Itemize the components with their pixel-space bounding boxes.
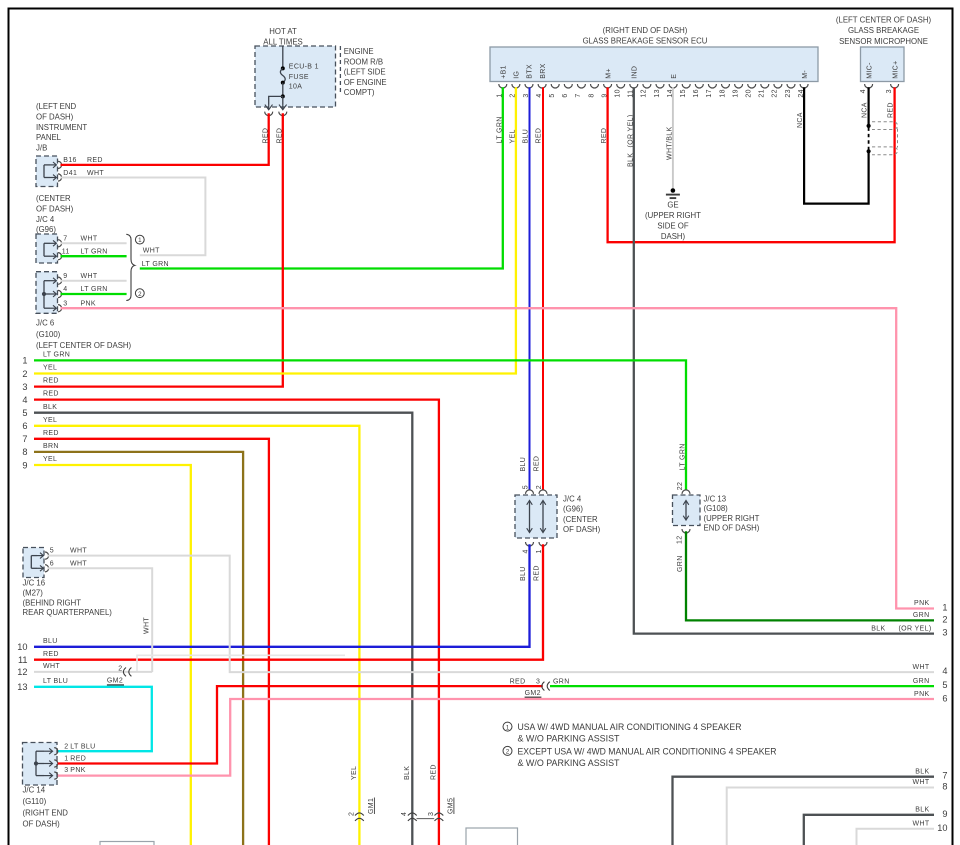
svg-text:+B1: +B1	[501, 65, 508, 79]
svg-text:BTX: BTX	[527, 64, 534, 79]
svg-text:ALL TIMES: ALL TIMES	[263, 37, 302, 46]
wire WHT right row 10	[857, 829, 935, 845]
svg-text:15: 15	[680, 89, 687, 98]
fuse ECU-B 1 10A	[282, 46, 284, 67]
svg-text:3: 3	[64, 767, 68, 774]
wire LT BLU row 13 to J/C14 pin 2	[34, 687, 152, 751]
svg-text:22: 22	[677, 482, 684, 491]
shield dashed segment on drain wire	[868, 128, 870, 150]
wire WHT J/C6 pin9 to brace	[61, 280, 127, 282]
svg-text:WHT: WHT	[81, 273, 98, 280]
svg-text:22: 22	[772, 89, 779, 98]
connector J/C 16 (M27)	[23, 548, 44, 578]
svg-text:OF DASH): OF DASH)	[36, 204, 74, 213]
svg-text:J/C 14: J/C 14	[23, 786, 46, 795]
svg-text:(LEFT CENTER OF DASH): (LEFT CENTER OF DASH)	[36, 341, 132, 350]
svg-text:J/C 13: J/C 13	[704, 495, 727, 504]
wire LT GRN J/C6 pin4 to brace	[61, 293, 127, 295]
wire BLK microphone MIC- drain upper	[867, 87, 869, 124]
svg-text:J/C 4: J/C 4	[563, 495, 582, 504]
wire BLK ECU pin24 M- to microphone MIC-	[804, 87, 869, 203]
svg-text:RED: RED	[43, 378, 59, 385]
svg-text:3: 3	[886, 89, 893, 93]
svg-text:J/B: J/B	[36, 144, 47, 153]
svg-text:PNK: PNK	[81, 300, 96, 307]
svg-text:17: 17	[706, 89, 713, 98]
svg-text:9: 9	[22, 460, 27, 470]
wire YEL row 9 to bottom	[34, 465, 191, 845]
svg-text:BLK: BLK	[871, 625, 885, 632]
svg-text:3: 3	[63, 300, 67, 307]
svg-text:EXCEPT USA W/ 4WD MANUAL AIR C: EXCEPT USA W/ 4WD MANUAL AIR CONDITIONIN…	[518, 747, 777, 757]
svg-text:(M27): (M27)	[23, 588, 44, 597]
svg-text:HOT AT: HOT AT	[269, 27, 297, 36]
svg-text:13: 13	[17, 682, 27, 692]
svg-text:WHT: WHT	[43, 663, 60, 670]
svg-text:COMPT): COMPT)	[344, 88, 375, 97]
svg-text:11: 11	[62, 248, 70, 255]
svg-text:4: 4	[63, 286, 67, 293]
svg-text:WHT: WHT	[913, 779, 930, 786]
svg-text:ENGINE: ENGINE	[344, 47, 374, 56]
partial connector box bottom left	[100, 842, 154, 845]
svg-text:GLASS BREAKAGE SENSOR ECU: GLASS BREAKAGE SENSOR ECU	[583, 37, 708, 46]
wire RED ECU pin9 M+ to microphone MIC+	[608, 87, 895, 242]
svg-text:5: 5	[549, 93, 556, 97]
svg-text:RED: RED	[43, 391, 59, 398]
svg-text:OF DASH): OF DASH)	[563, 525, 601, 534]
svg-text:(LEFT CENTER OF DASH): (LEFT CENTER OF DASH)	[836, 16, 932, 25]
svg-text:RED: RED	[70, 755, 86, 762]
svg-text:WHT: WHT	[87, 170, 104, 177]
svg-text:(OR YEL): (OR YEL)	[898, 625, 931, 632]
legend option 2	[503, 746, 512, 755]
svg-text:(CENTER: (CENTER	[563, 515, 598, 524]
fuse box ENGINE ROOM R/B	[255, 46, 336, 107]
svg-text:WHT: WHT	[70, 560, 87, 567]
ECU pin cups and numbers 1-24	[499, 84, 507, 88]
svg-text:3: 3	[428, 812, 435, 816]
svg-text:WHT: WHT	[913, 664, 930, 671]
svg-text:OF ENGINE: OF ENGINE	[344, 78, 387, 87]
svg-text:GE: GE	[667, 200, 678, 209]
svg-text:9: 9	[63, 273, 67, 280]
svg-text:GLASS BREAKAGE: GLASS BREAKAGE	[848, 26, 919, 35]
svg-text:PNK: PNK	[914, 691, 929, 698]
svg-text:E: E	[671, 74, 678, 79]
ground GE	[671, 188, 676, 193]
svg-text:(RIGHT END OF DASH): (RIGHT END OF DASH)	[603, 26, 688, 35]
link between splice 4 and splice GM5	[417, 818, 435, 820]
svg-text:7: 7	[575, 93, 582, 97]
J/C4 center cups	[526, 490, 534, 494]
wire LT GRN brace to ECU pin 1	[140, 87, 503, 268]
svg-text:13: 13	[654, 89, 661, 98]
wire PNK J/C14 pin3 to right row 6	[58, 699, 934, 776]
svg-text:10: 10	[615, 89, 622, 98]
svg-text:5: 5	[942, 680, 947, 690]
svg-text:RED: RED	[431, 764, 438, 780]
svg-text:12: 12	[17, 667, 27, 677]
svg-text:BRX: BRX	[540, 63, 547, 78]
svg-text:& W/O PARKING ASSIST: & W/O PARKING ASSIST	[518, 758, 620, 768]
wire RED row 7 to bottom	[34, 439, 269, 845]
svg-text:9: 9	[942, 809, 947, 819]
svg-text:2: 2	[118, 665, 122, 672]
svg-text:ROOM R/B: ROOM R/B	[344, 57, 383, 66]
junction dot J/C 14 bracket	[34, 761, 38, 765]
svg-text:2: 2	[22, 369, 27, 379]
svg-text:BLU: BLU	[520, 566, 527, 581]
wire BLU J/C4 center to row 10	[34, 544, 530, 647]
brace selector	[126, 234, 134, 300]
svg-text:6: 6	[942, 694, 947, 704]
svg-text:7: 7	[942, 771, 947, 781]
svg-text:LT GRN: LT GRN	[81, 248, 108, 255]
wire BLK (OR YEL) ECU pin11 to right row 3	[634, 87, 934, 633]
svg-text:1: 1	[138, 237, 142, 244]
svg-text:12: 12	[641, 89, 648, 98]
svg-text:WHT: WHT	[70, 548, 87, 555]
option marker 2	[135, 289, 144, 298]
svg-text:& W/O PARKING ASSIST: & W/O PARKING ASSIST	[518, 734, 620, 744]
svg-text:MIC+: MIC+	[892, 60, 899, 78]
svg-text:1: 1	[506, 724, 510, 731]
svg-text:J/C 16: J/C 16	[23, 579, 46, 588]
svg-text:GM2: GM2	[525, 690, 541, 697]
svg-text:LT GRN: LT GRN	[81, 286, 108, 293]
svg-text:FUSE: FUSE	[289, 74, 309, 81]
svg-text:BLU: BLU	[43, 638, 58, 645]
wire WHT row12 branch upper	[137, 655, 345, 672]
svg-text:(G108): (G108)	[704, 504, 729, 513]
svg-text:BLK: BLK	[43, 404, 57, 411]
wire GRN J/C13 pin12 to right row 2	[686, 531, 934, 620]
svg-text:(G110): (G110)	[23, 797, 47, 806]
svg-text:8: 8	[22, 447, 27, 457]
svg-text:6: 6	[22, 421, 27, 431]
svg-text:(G96): (G96)	[36, 225, 56, 234]
svg-text:2: 2	[942, 615, 947, 625]
svg-text:2: 2	[536, 485, 543, 489]
arrow terminal right fuse output	[282, 105, 284, 110]
wire RED row 4 to bottom	[34, 400, 439, 845]
svg-text:12: 12	[677, 536, 684, 545]
wire RED ECU pin4 to J/C4 center	[542, 87, 544, 490]
svg-text:USA W/ 4WD MANUAL AIR CONDITIO: USA W/ 4WD MANUAL AIR CONDITIONING 4 SPE…	[518, 722, 742, 732]
svg-text:REAR QUARTERPANEL): REAR QUARTERPANEL)	[23, 608, 113, 617]
junction dot J/C 6 bracket	[42, 292, 46, 296]
wire RED fuse to row 3	[34, 113, 283, 386]
svg-text:GRN: GRN	[913, 678, 930, 685]
svg-text:2: 2	[138, 291, 142, 298]
wire BLU ECU pin3 to J/C4 center	[529, 87, 531, 490]
svg-text:5: 5	[50, 548, 54, 555]
wire LT GRN row 1 to J/C 13 pin 22	[34, 360, 686, 489]
partial connector box bottom center	[466, 828, 518, 845]
svg-text:MIC-: MIC-	[866, 62, 873, 79]
shield junction dots	[867, 124, 871, 128]
wire RED J/C14 pin1 to GM2	[58, 686, 543, 763]
svg-text:4: 4	[22, 395, 27, 405]
svg-text:M-: M-	[802, 70, 809, 79]
svg-text:11: 11	[18, 655, 28, 665]
svg-text:INSTRUMENT: INSTRUMENT	[36, 123, 87, 132]
fuse output branch wires	[269, 96, 283, 104]
svg-text:23: 23	[785, 89, 792, 98]
svg-text:WHT: WHT	[81, 235, 98, 242]
svg-text:6: 6	[562, 93, 569, 97]
wire BLK right row 9	[804, 815, 934, 845]
svg-text:3: 3	[22, 382, 27, 392]
svg-text:IG: IG	[514, 71, 521, 79]
connector J/C 4 (G96) center of dash	[515, 495, 557, 538]
svg-text:RED: RED	[510, 678, 526, 685]
wire WHT/BLK ECU pin14 to ground GE	[672, 87, 674, 188]
microphone box GLASS BREAKAGE SENSOR MICROPHONE	[861, 47, 905, 82]
wire BLK right row 7	[673, 777, 935, 845]
svg-text:2: 2	[64, 744, 68, 751]
svg-text:YEL: YEL	[43, 456, 57, 463]
connector J/B instrument panel	[36, 156, 58, 187]
svg-text:(UPPER RIGHT: (UPPER RIGHT	[704, 514, 760, 523]
svg-text:2: 2	[348, 812, 355, 816]
svg-text:(G100): (G100)	[36, 330, 61, 339]
svg-text:GRN: GRN	[677, 555, 684, 572]
wire RED J/C4 center to row 11	[34, 544, 543, 660]
svg-text:3: 3	[536, 678, 540, 685]
svg-text:BLU: BLU	[520, 457, 527, 472]
svg-text:4: 4	[522, 549, 529, 553]
svg-text:WHT: WHT	[913, 821, 930, 828]
svg-text:M+: M+	[605, 68, 612, 79]
svg-text:B16: B16	[63, 157, 77, 164]
svg-text:10: 10	[17, 642, 27, 652]
svg-text:PNK: PNK	[70, 767, 85, 774]
svg-text:1: 1	[22, 356, 27, 366]
svg-text:5: 5	[522, 485, 529, 489]
svg-text:YEL: YEL	[43, 417, 57, 424]
svg-text:LT GRN: LT GRN	[142, 261, 169, 268]
svg-text:END OF DASH): END OF DASH)	[704, 524, 760, 533]
legend option 1	[503, 722, 512, 731]
svg-text:10: 10	[937, 823, 947, 833]
svg-text:LT BLU: LT BLU	[70, 744, 95, 751]
svg-text:(BEHIND RIGHT: (BEHIND RIGHT	[23, 598, 82, 607]
svg-text:RED: RED	[534, 565, 541, 581]
wire YEL ECU pin2 to row 2	[34, 87, 516, 373]
arrow terminal left fuse output	[268, 105, 270, 110]
svg-text:ECU-B 1: ECU-B 1	[289, 64, 319, 71]
wire PNK J/C6 pin3 to right row 1	[61, 308, 935, 608]
svg-text:10A: 10A	[289, 84, 303, 91]
svg-text:1: 1	[64, 755, 68, 762]
svg-text:WHT: WHT	[144, 617, 151, 634]
wire LT GRN J/C4 pin11 to brace	[61, 255, 127, 257]
wire WHT brace to J/B D41	[61, 178, 206, 256]
shield symbol dashed staples	[872, 122, 898, 130]
svg-text:21: 21	[759, 89, 766, 98]
svg-text:8: 8	[942, 782, 947, 792]
dashed continuation line of engine room R/B	[339, 46, 341, 94]
svg-text:1: 1	[536, 549, 543, 553]
connector J/C 14 (G110)	[23, 743, 58, 786]
svg-text:YEL: YEL	[43, 365, 57, 372]
wire BLK row 5 to bottom	[34, 413, 412, 845]
svg-text:RED: RED	[43, 430, 59, 437]
svg-text:2: 2	[506, 749, 510, 756]
wire WHT row 12	[34, 671, 152, 673]
wire WHT J/C16 pin5 to right row 4	[48, 556, 934, 673]
svg-text:RED: RED	[43, 651, 59, 658]
svg-text:(CENTER: (CENTER	[36, 194, 71, 203]
svg-text:(LEFT SIDE: (LEFT SIDE	[344, 68, 386, 77]
connector J/C 13 (G108)	[673, 495, 701, 526]
svg-text:SENSOR MICROPHONE: SENSOR MICROPHONE	[839, 37, 928, 46]
svg-text:RED: RED	[87, 157, 103, 164]
svg-text:6: 6	[50, 560, 54, 567]
svg-text:GRN: GRN	[553, 678, 570, 685]
connector J/C 4 (G96) left	[36, 234, 58, 263]
svg-text:4: 4	[536, 93, 543, 97]
wire RED fuse to J/B B16	[61, 113, 269, 165]
svg-text:(RIGHT END: (RIGHT END	[23, 808, 69, 817]
svg-text:19: 19	[732, 89, 739, 98]
svg-text:GM1: GM1	[368, 798, 375, 814]
svg-text:(G96): (G96)	[563, 505, 583, 514]
svg-text:YEL: YEL	[351, 766, 358, 780]
svg-text:18: 18	[719, 89, 726, 98]
svg-text:4: 4	[942, 666, 947, 676]
svg-text:OF DASH): OF DASH)	[36, 112, 74, 121]
svg-text:8: 8	[588, 93, 595, 97]
svg-text:IND: IND	[632, 66, 639, 79]
svg-text:BLK: BLK	[915, 807, 929, 814]
svg-text:WHT: WHT	[143, 247, 160, 254]
svg-text:7: 7	[63, 235, 67, 242]
svg-text:RED: RED	[536, 128, 543, 144]
svg-text:OF DASH): OF DASH)	[23, 820, 61, 829]
svg-text:1: 1	[942, 603, 947, 613]
wire WHT J/C4 pin7 to brace	[61, 242, 127, 244]
wire GRN GM2 to right row 5	[550, 685, 934, 687]
wire WHT right row 8	[727, 788, 934, 845]
svg-text:LT GRN: LT GRN	[680, 443, 687, 470]
svg-text:4: 4	[860, 89, 867, 93]
svg-text:GM5: GM5	[447, 798, 454, 814]
svg-text:GM2: GM2	[107, 677, 123, 684]
svg-text:BLK: BLK	[404, 766, 411, 780]
svg-text:BRN: BRN	[43, 443, 59, 450]
svg-text:LT BLU: LT BLU	[43, 678, 68, 685]
ECU box GLASS BREAKAGE SENSOR ECU	[490, 47, 818, 82]
svg-text:5: 5	[22, 408, 27, 418]
J/C4 center pass-through arrows	[529, 502, 531, 532]
svg-text:PANEL: PANEL	[36, 133, 62, 142]
svg-text:GRN: GRN	[913, 612, 930, 619]
svg-text:RED: RED	[534, 456, 541, 472]
connector J/C 6 (G100)	[36, 272, 58, 314]
svg-text:LT GRN: LT GRN	[43, 352, 70, 359]
svg-text:SIDE OF: SIDE OF	[657, 221, 688, 230]
svg-text:BLK: BLK	[915, 768, 929, 775]
svg-text:J/C 4: J/C 4	[36, 215, 55, 224]
svg-text:7: 7	[22, 434, 27, 444]
svg-text:3: 3	[942, 628, 947, 638]
svg-text:16: 16	[693, 89, 700, 98]
svg-text:J/C 6: J/C 6	[36, 319, 54, 328]
wire WHT J/C16 pin6 to row 12	[48, 568, 153, 672]
svg-text:PNK: PNK	[914, 600, 929, 607]
option marker 1	[135, 235, 144, 244]
microphone pin cups and numbers 4 3	[865, 84, 873, 88]
wire BRN row 8 to bottom	[34, 452, 243, 845]
svg-text:(UPPER RIGHT: (UPPER RIGHT	[645, 211, 701, 220]
svg-text:4: 4	[401, 812, 408, 816]
svg-text:D41: D41	[63, 170, 77, 177]
svg-text:20: 20	[746, 89, 753, 98]
svg-text:DASH): DASH)	[661, 232, 686, 241]
svg-text:(LEFT END: (LEFT END	[36, 102, 77, 111]
wire YEL row 6 to GM1	[34, 426, 359, 845]
